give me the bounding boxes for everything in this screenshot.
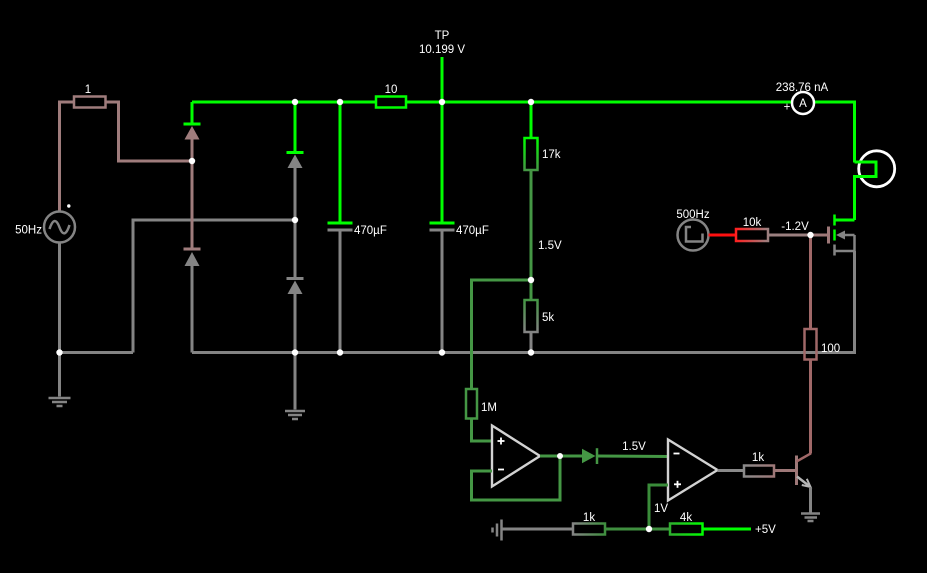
node op-amp output xyxy=(557,453,563,459)
node 1V xyxy=(646,526,652,532)
resistor R1 value 1 xyxy=(74,84,106,108)
wire xyxy=(60,351,134,354)
svg-text:1k: 1k xyxy=(752,452,764,464)
node top rail junction TP xyxy=(439,99,445,105)
svg-text:-1.2V: -1.2V xyxy=(781,221,809,233)
op-amp U1 xyxy=(492,426,540,487)
svg-text:5k: 5k xyxy=(542,312,554,324)
wire xyxy=(709,234,737,237)
diode D5 xyxy=(582,448,597,464)
wire xyxy=(106,102,193,161)
svg-text:1.5V: 1.5V xyxy=(622,441,646,453)
svg-text:50Hz: 50Hz xyxy=(15,225,42,237)
node ground rail junction C2 xyxy=(439,349,445,355)
svg-text:1k: 1k xyxy=(583,512,595,524)
resistor R10 4k xyxy=(670,512,703,535)
svg-text:1M: 1M xyxy=(481,402,497,414)
svg-text:1V: 1V xyxy=(654,503,668,515)
resistor R4 5k xyxy=(525,280,555,353)
svg-text:500Hz: 500Hz xyxy=(676,209,709,221)
node top rail junction D3 xyxy=(292,99,298,105)
svg-text:470µF: 470µF xyxy=(354,225,387,237)
wire 1V node xyxy=(649,485,668,529)
node ground rail junction D4 xyxy=(292,349,298,355)
svg-text:4k: 4k xyxy=(680,512,692,524)
wire xyxy=(472,419,493,442)
svg-text:+: + xyxy=(784,102,791,114)
loudspeaker SP1 xyxy=(855,151,895,220)
svg-text:TP: TP xyxy=(435,30,450,42)
wire xyxy=(774,469,797,472)
svg-text:10k: 10k xyxy=(743,217,762,229)
ground rotated xyxy=(493,520,502,541)
svg-text:1.5V: 1.5V xyxy=(538,240,562,252)
resistor R3 17k xyxy=(525,102,561,170)
node 1.5V divider xyxy=(528,277,534,283)
mosfet M1 xyxy=(811,215,855,256)
ground xyxy=(285,353,305,420)
wire xyxy=(503,528,574,531)
node top rail junction 17k xyxy=(528,99,534,105)
svg-text:238.76 nA: 238.76 nA xyxy=(776,82,829,94)
node AC1 xyxy=(189,158,195,164)
svg-text:10: 10 xyxy=(385,84,398,96)
wire xyxy=(60,102,75,212)
resistor R9 1k xyxy=(573,512,605,535)
svg-text:10.199 V: 10.199 V xyxy=(419,44,465,56)
wire xyxy=(133,220,295,353)
node gate xyxy=(807,232,813,238)
wire -1.2V xyxy=(768,221,811,235)
transistor Q1 xyxy=(797,453,812,513)
wire op-amp2 output xyxy=(718,469,745,472)
svg-text:470µF: 470µF xyxy=(456,225,489,237)
wire xyxy=(814,102,855,163)
square wave source V2 500Hz xyxy=(676,209,709,251)
node ground rail junction C1 xyxy=(337,349,343,355)
resistor R7 10k xyxy=(736,217,768,241)
voltage source V1 50Hz AC xyxy=(15,204,75,242)
resistor R2 value 10 xyxy=(376,84,406,108)
svg-text:A: A xyxy=(799,98,807,110)
svg-text:17k: 17k xyxy=(542,149,561,161)
capacitor C1 470uF xyxy=(328,102,387,353)
node ground rail junction source xyxy=(56,349,62,355)
resistor R6 1k xyxy=(744,452,774,477)
op-amp U2 xyxy=(668,440,718,501)
diode D1 xyxy=(184,102,201,161)
wire top rail xyxy=(406,101,792,104)
ground xyxy=(49,353,71,407)
diode D2 xyxy=(184,161,201,353)
svg-text:1: 1 xyxy=(85,84,91,96)
test point TP wire xyxy=(419,30,465,222)
wire xyxy=(540,455,582,458)
node ground rail junction 5k xyxy=(528,349,534,355)
svg-text:100: 100 xyxy=(821,343,840,355)
svg-text:+5V: +5V xyxy=(755,524,776,536)
node top rail junction C1 xyxy=(337,99,343,105)
wire bottom rail xyxy=(192,251,855,353)
resistor R8 100 xyxy=(805,235,841,454)
wire xyxy=(58,243,61,353)
diode D4 xyxy=(287,220,304,353)
wire +5V xyxy=(703,524,777,536)
capacitor C2 470uF xyxy=(430,223,489,353)
ammeter A1 xyxy=(776,82,829,114)
wire feedback xyxy=(472,456,561,500)
diode D3 xyxy=(287,102,304,220)
node AC2 xyxy=(292,217,298,223)
wire top rail xyxy=(192,101,376,104)
ground xyxy=(801,514,820,522)
wire 1.5V to op-amp 2 xyxy=(597,441,668,457)
resistor R5 1M xyxy=(466,389,497,419)
wire 1.5V node xyxy=(531,170,562,280)
wire xyxy=(605,528,670,531)
wire xyxy=(472,280,532,389)
